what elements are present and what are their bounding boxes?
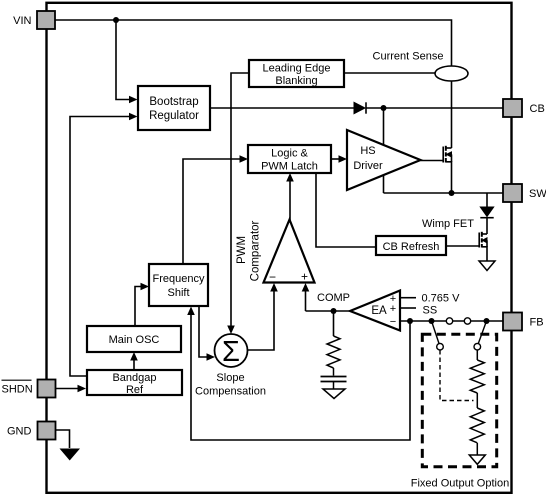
svg-text:Bandgap: Bandgap <box>112 372 156 384</box>
svg-text:SS: SS <box>423 305 438 317</box>
svg-text:FB: FB <box>530 317 544 329</box>
svg-text:CB: CB <box>530 103 545 115</box>
wire EA reference input <box>400 297 416 299</box>
ground (wimp FET source, open) <box>479 261 495 271</box>
pad FB <box>503 313 522 331</box>
dashed box Fixed Output Option <box>422 334 496 466</box>
op-amp U1 HS Driver triangle <box>347 130 421 190</box>
svg-text:Main OSC: Main OSC <box>109 334 160 346</box>
svg-text:Comparator: Comparator <box>250 220 262 281</box>
comparator U2 PWM Comparator triangle <box>264 220 315 285</box>
node FB junction dot 1 <box>407 318 413 324</box>
ground (compensation, open) <box>323 389 345 399</box>
wire CB rail down to SW rail (behind HS driver) <box>383 108 385 193</box>
node SW junction dot <box>449 190 455 196</box>
pad VIN <box>37 11 55 29</box>
box Bootstrap Regulator <box>138 86 210 130</box>
svg-text:CB Refresh: CB Refresh <box>383 241 440 253</box>
node VIN junction dot <box>113 17 119 23</box>
wire FB line from EA inverting input to FB pad <box>400 320 503 322</box>
svg-text:VIN: VIN <box>13 15 31 27</box>
svg-text:Ref: Ref <box>126 384 144 396</box>
wire divider to ground <box>476 443 478 455</box>
pad SW <box>503 184 522 202</box>
wire Main OSC to Frequency Shift (arrow) <box>135 283 149 326</box>
switch contact circle 2 on FB line <box>464 318 470 324</box>
box Leading Edge Blanking <box>249 60 344 87</box>
svg-text:Frequency: Frequency <box>153 273 205 285</box>
box Main OSC <box>87 326 181 352</box>
pad GND <box>38 422 56 440</box>
wire FB node down to frequency shift (light load) <box>191 315 410 440</box>
resistor R2 feedback divider top <box>470 360 484 393</box>
wire CB Refresh output to wimp FET gate <box>446 245 479 247</box>
svg-text:SHDN: SHDN <box>2 384 33 396</box>
svg-text:Wimp FET: Wimp FET <box>422 218 474 230</box>
svg-text:−: − <box>269 270 276 284</box>
svg-text:HS: HS <box>360 145 375 157</box>
svg-text:GND: GND <box>7 426 32 438</box>
wire Leading Edge Blanking output down to summing node (arrow) <box>227 73 249 334</box>
wire Leading Edge Blanking input from current-sense rail <box>344 72 435 74</box>
transistor Q2 wimp FET <box>479 232 487 261</box>
svg-text:0.765 V: 0.765 V <box>422 293 461 305</box>
svg-text:+: + <box>301 270 308 284</box>
svg-text:Slope: Slope <box>216 372 244 384</box>
svg-text:EA: EA <box>371 305 387 317</box>
label SHDN (with overline) <box>2 380 33 395</box>
svg-text:Logic &: Logic & <box>271 148 308 160</box>
svg-text:Bootstrap: Bootstrap <box>149 96 198 108</box>
pad CB <box>503 99 522 117</box>
switch contact circle 1 on FB line <box>446 318 452 324</box>
node COMP junction dot <box>331 308 337 314</box>
wire divider midpoint <box>476 393 478 408</box>
box Bandgap Ref <box>87 370 182 396</box>
svg-text:Blanking: Blanking <box>275 75 317 87</box>
box Logic &amp; PWM Latch <box>248 145 331 173</box>
svg-text:Fixed Output Option: Fixed Output Option <box>411 478 509 490</box>
wire SHDN pad to Bandgap Ref (arrow) <box>55 385 86 393</box>
wire GND pad to ground symbol <box>55 430 70 448</box>
svg-text:Driver: Driver <box>353 160 383 172</box>
svg-text:PWM: PWM <box>236 236 248 264</box>
op-amp U3 error amplifier EA <box>350 291 400 331</box>
svg-text:Σ: Σ <box>222 336 240 368</box>
wire diode cathode to CB pad <box>366 107 503 109</box>
summing node (slope compensation adder) <box>215 334 248 368</box>
svg-text:PWM Latch: PWM Latch <box>261 161 318 173</box>
box Frequency Shift <box>149 264 208 306</box>
box CB Refresh <box>376 236 446 255</box>
node FB junction dot 2 <box>429 318 435 324</box>
wire Bandgap rail to Bootstrap Regulator input 2 (arrow) <box>70 113 138 376</box>
wire EA soft-start input <box>400 307 416 309</box>
wire HS Driver output to main FET gate <box>421 160 443 162</box>
svg-text:−: − <box>390 316 396 328</box>
wire oscillator clock: Frequency Shift top to Logic &amp; PWM Latch (arrow) <box>183 155 248 264</box>
svg-text:Compensation: Compensation <box>195 386 266 398</box>
wire COMP to PWM comparator plus input (arrow) <box>302 283 310 311</box>
wire SW rail <box>384 192 504 194</box>
wire PWM comparator output up to Logic &amp; PWM Latch (arrow) <box>286 173 294 220</box>
wire Bandgap Ref to Main OSC (arrow) <box>130 352 138 370</box>
node FB junction dot 3 <box>484 318 490 324</box>
svg-text:SW: SW <box>529 188 546 200</box>
diode D1 (bootstrap) <box>354 102 366 113</box>
wire Logic &amp; PWM Latch bottom to CB Refresh <box>316 173 376 247</box>
wire arrow into Frequency Shift bottom <box>187 307 195 316</box>
wire Frequency Shift output to summing node (arrow) <box>199 306 215 361</box>
resistor R1 compensation <box>327 311 340 376</box>
wire switch S2 to divider <box>476 350 478 360</box>
transistor Q1 main power FET <box>443 146 451 193</box>
capacitor C1 compensation <box>321 377 347 390</box>
label PWM Comparator (rotated) <box>236 220 262 281</box>
svg-text:Regulator: Regulator <box>149 110 199 122</box>
ground (divider, open) <box>469 455 485 464</box>
wire VIN rail: pad to corner, down through current sense to FET drain <box>55 20 452 148</box>
current sense element (ellipse) <box>435 66 468 81</box>
ground (GND pad, filled) <box>60 449 81 461</box>
svg-text:COMP: COMP <box>317 292 350 304</box>
resistor R3 feedback divider bottom <box>470 408 484 443</box>
wire slope-comp sum to PWM comparator minus input (arrow) <box>248 283 278 350</box>
wire VIN junction to Bootstrap Regulator input 1 (arrow) <box>116 20 138 103</box>
wire Logic &amp; PWM Latch to HS Driver (arrow) <box>331 155 347 163</box>
svg-text:Leading Edge: Leading Edge <box>263 63 331 75</box>
switch S1 (left option switch) <box>432 321 444 350</box>
switch S2 (right option switch) <box>474 321 487 350</box>
wire Bootstrap output to diode anode <box>210 107 354 109</box>
svg-text:Current Sense: Current Sense <box>373 51 444 63</box>
diode D2 wimp diode from SW <box>480 193 493 234</box>
node CB junction dot <box>381 105 387 111</box>
wire dashed option connection <box>440 350 474 401</box>
wire EA output to COMP node <box>306 310 351 312</box>
pad SHDN <box>38 380 56 398</box>
svg-text:+: + <box>390 303 396 315</box>
svg-text:Shift: Shift <box>167 287 189 299</box>
